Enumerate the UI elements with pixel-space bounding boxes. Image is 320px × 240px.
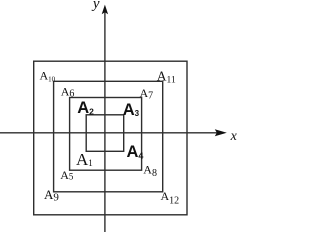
y-axis arrowhead bbox=[102, 5, 108, 15]
square S4 (outermost) bbox=[34, 61, 187, 215]
y-axis bbox=[104, 10, 106, 232]
x-axis bbox=[0, 132, 219, 134]
square S2 (A5 A6 A7 A8) bbox=[70, 98, 142, 171]
square S3 (A9 A10 A11 A12) bbox=[54, 81, 163, 192]
svg-text:x: x bbox=[230, 129, 237, 144]
x-axis arrowhead bbox=[215, 129, 227, 136]
svg-text:y: y bbox=[91, 0, 100, 12]
square S1 (A1 A2 A3 A4) bbox=[86, 115, 124, 152]
